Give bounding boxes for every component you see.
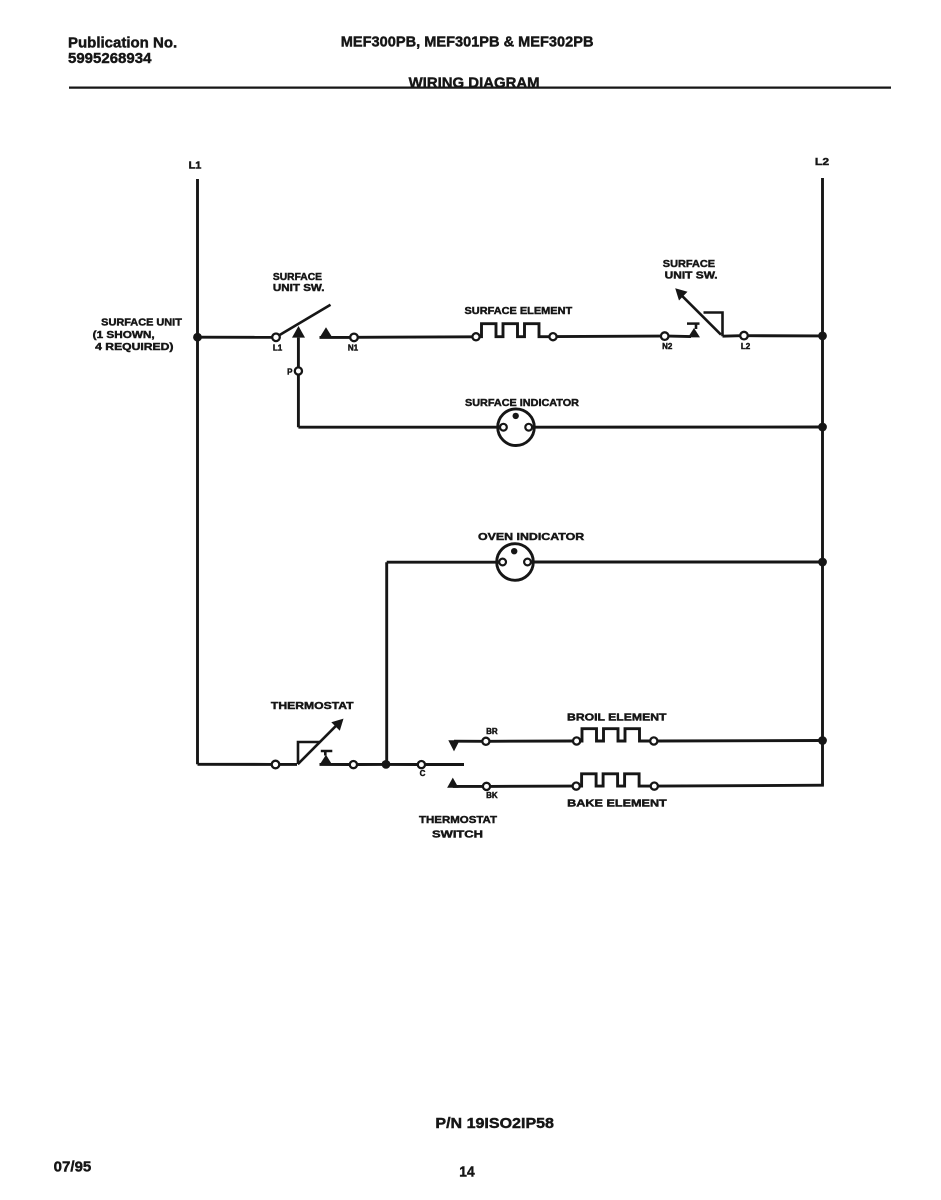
svg-text:WIRING DIAGRAM: WIRING DIAGRAM (409, 74, 540, 91)
svg-text:4 REQUIRED): 4 REQUIRED) (95, 342, 173, 353)
terminal N1 (350, 334, 358, 342)
terminal N2 (661, 332, 669, 340)
svg-text:07/95: 07/95 (54, 1159, 92, 1176)
svg-text:UNIT SW.: UNIT SW. (273, 283, 325, 294)
label thermostat switch (419, 815, 497, 840)
wire BR to broil element (490, 740, 574, 743)
svg-text:THERMOSTAT: THERMOSTAT (419, 815, 497, 826)
wire thermostat line from L1 (198, 763, 272, 766)
svg-text:P/N 19ISO2IP58: P/N 19ISO2IP58 (435, 1115, 554, 1132)
lamp oven indicator (497, 544, 534, 581)
terminal broil element right (650, 737, 657, 744)
arrowhead blade right switch (675, 288, 687, 300)
svg-text:5995268934: 5995268934 (68, 50, 152, 67)
svg-text:THERMOSTAT: THERMOSTAT (271, 701, 354, 712)
wire switch to N1 (320, 336, 351, 339)
junction thermostat oven branch (382, 760, 391, 769)
wire surface indicator right (532, 426, 823, 429)
label surface unit sw left (273, 272, 325, 294)
wire P branch vertical (297, 338, 300, 428)
terminal C (418, 761, 425, 768)
wire terminal to junction (357, 763, 387, 766)
junction oven indicator L2 bus (818, 558, 827, 567)
svg-text:L2: L2 (815, 156, 829, 168)
terminal BR (482, 738, 489, 745)
arrow contact N1 side (320, 327, 333, 338)
terminal surface element left (472, 333, 479, 340)
arrow contact bake (up) (447, 778, 458, 788)
wire surface element to N2 (557, 335, 661, 338)
contact bar right switch (687, 322, 700, 325)
svg-text:SURFACE ELEMENT: SURFACE ELEMENT (465, 306, 573, 317)
header rule (69, 86, 891, 88)
svg-text:OVEN INDICATOR: OVEN INDICATOR (478, 532, 585, 543)
wire contact to terminal (320, 763, 350, 766)
wire N1 to surface element (358, 335, 473, 338)
arrowhead blade thermostat (331, 719, 343, 731)
svg-text:SURFACE INDICATOR: SURFACE INDICATOR (465, 398, 580, 409)
svg-text:SWITCH: SWITCH (432, 829, 483, 840)
terminal thermostat left (272, 761, 280, 769)
svg-text:L1: L1 (273, 343, 283, 352)
arrow contact P branch (292, 326, 305, 338)
arrow contact right switch (688, 328, 700, 337)
wire C stub (425, 763, 464, 766)
svg-text:L2: L2 (741, 342, 751, 351)
junction L1 main line (193, 333, 202, 342)
svg-text:C: C (420, 769, 426, 778)
svg-text:UNIT SW.: UNIT SW. (665, 271, 718, 282)
svg-text:N1: N1 (348, 344, 359, 353)
terminal bake element left (573, 783, 580, 790)
header publication number (68, 34, 177, 67)
terminal bake element right (651, 783, 658, 790)
svg-text:(1 SHOWN,: (1 SHOWN, (93, 330, 155, 341)
wire oven indicator branch vertical (385, 562, 388, 764)
terminal L2 of right switch (740, 332, 748, 340)
junction main line L2 bus (818, 332, 827, 341)
wire bake element to L2 bus corner (658, 784, 824, 788)
label surface unit sw right (663, 259, 718, 282)
arrow contact broil (down) (448, 740, 459, 751)
heating element broil (square wave) (580, 729, 650, 741)
wire broil element to L2 bus (657, 739, 822, 742)
wire frame to L2 terminal (723, 334, 741, 337)
junction broil L2 bus (818, 736, 827, 745)
wire main line L1 to switch (198, 336, 273, 339)
terminal P (295, 367, 302, 374)
heating element surface (square wave) (480, 324, 550, 337)
wire surface indicator left (298, 426, 500, 429)
switch blade thermostat (298, 725, 337, 764)
wire terminal to blade (279, 763, 297, 766)
wire broil contact to BR (454, 740, 482, 743)
svg-text:BROIL ELEMENT: BROIL ELEMENT (567, 712, 667, 723)
lamp surface indicator (498, 409, 535, 446)
switch blade surface unit sw left (280, 305, 331, 335)
wire oven indicator left (387, 561, 500, 564)
wire bake contact to BK (453, 785, 483, 788)
wire L1 bus vertical (196, 179, 199, 764)
terminal broil element left (573, 737, 580, 744)
contact bar thermostat (321, 750, 333, 753)
label surface unit (93, 317, 182, 353)
wire junction to C (386, 763, 418, 766)
svg-text:14: 14 (459, 1164, 475, 1181)
wire BK to bake element (490, 785, 572, 788)
svg-text:Publication No.: Publication No. (68, 34, 177, 51)
terminal thermostat mid (350, 761, 357, 768)
svg-text:N2: N2 (662, 342, 673, 351)
svg-text:BK: BK (486, 791, 498, 800)
wire L2 bus vertical (821, 178, 824, 785)
svg-text:L1: L1 (189, 159, 202, 171)
heating element bake (square wave) (580, 774, 651, 786)
svg-text:MEF300PB, MEF301PB & MEF302PB: MEF300PB, MEF301PB & MEF302PB (341, 34, 594, 51)
svg-text:P: P (287, 368, 293, 377)
svg-text:BR: BR (486, 727, 498, 736)
wire N2 to contact (669, 335, 692, 338)
arrow contact thermostat (320, 755, 332, 765)
terminal L1 of surface unit switch (272, 334, 280, 342)
terminal surface element right (549, 333, 556, 340)
junction surface indicator L2 bus (818, 423, 827, 432)
terminal BK (483, 783, 490, 790)
svg-text:SURFACE UNIT: SURFACE UNIT (101, 317, 182, 328)
svg-text:SURFACE: SURFACE (273, 272, 322, 283)
switch blade surface unit sw right (682, 295, 722, 334)
wire oven indicator right (531, 561, 823, 564)
svg-text:SURFACE: SURFACE (663, 259, 716, 270)
thermostat frame (298, 742, 320, 764)
svg-text:BAKE ELEMENT: BAKE ELEMENT (567, 798, 667, 809)
wire L2 switch to L2 bus (748, 334, 823, 337)
switch frame right switch (704, 313, 723, 337)
